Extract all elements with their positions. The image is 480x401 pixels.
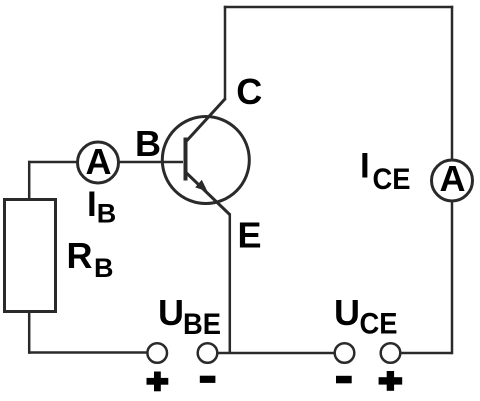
svg-text:B: B xyxy=(97,199,117,229)
wire resistor bottom vertical xyxy=(28,311,31,354)
svg-text:CE: CE xyxy=(373,163,411,196)
wire left vertical to resistor xyxy=(28,161,31,201)
svg-text:A: A xyxy=(86,141,112,182)
svg-text:I: I xyxy=(360,147,370,186)
svg-text:I: I xyxy=(87,185,97,224)
svg-text:U: U xyxy=(158,292,184,333)
terminal 3 (- of U_CE) xyxy=(335,343,355,363)
terminal 1 (+ of U_BE) xyxy=(147,343,167,363)
transistor Q1 emitter arrowhead xyxy=(195,180,207,192)
wire bottom left horizontal xyxy=(28,351,147,354)
svg-text:CE: CE xyxy=(360,308,398,341)
wire base xyxy=(118,161,183,164)
minus sign at terminal 3 xyxy=(336,376,352,384)
terminal 4 (+ of U_CE) xyxy=(381,343,401,363)
ammeter A1 circle (base current) xyxy=(78,142,119,183)
svg-text:R: R xyxy=(67,235,93,276)
transistor Q1 base bar xyxy=(184,138,188,181)
svg-text:E: E xyxy=(238,215,262,256)
svg-text:B: B xyxy=(94,253,114,283)
minus sign at terminal 2 xyxy=(200,376,216,383)
wire bottom right xyxy=(401,352,453,355)
plus sign at terminal 4 xyxy=(379,371,403,391)
svg-text:A: A xyxy=(440,158,466,199)
ammeter A2 circle (collector current) xyxy=(432,160,473,201)
wire top horizontal xyxy=(224,6,453,9)
wire right vertical upper xyxy=(451,6,454,161)
svg-text:BE: BE xyxy=(183,308,221,341)
svg-text:B: B xyxy=(135,123,161,164)
transistor Q1 collector diagonal xyxy=(187,99,226,142)
resistor R_B xyxy=(5,200,56,312)
wire right vertical lower xyxy=(451,201,454,355)
wire between U_BE and U_CE terminals xyxy=(217,352,335,355)
svg-text:C: C xyxy=(236,71,262,112)
transistor Q1 body circle xyxy=(162,117,249,204)
wire left of ammeter A1 xyxy=(28,161,78,164)
svg-text:U: U xyxy=(334,292,360,333)
wire emitter vertical xyxy=(229,214,232,354)
wire collector vertical xyxy=(224,6,227,100)
terminal 2 (- of U_BE) xyxy=(198,343,218,363)
transistor Q1 emitter diagonal xyxy=(187,173,231,215)
plus sign at terminal 1 xyxy=(147,372,169,392)
